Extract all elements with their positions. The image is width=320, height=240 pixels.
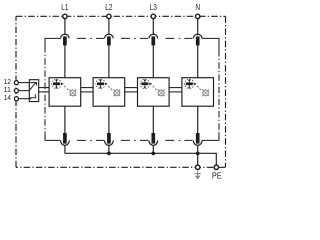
wire L2 terminal to upper contact xyxy=(108,19,110,36)
varistor/disconnector icon (gray crossed square) module L1 xyxy=(69,89,77,97)
terminal circle L2 xyxy=(107,14,111,18)
junction dot on PE bus at x=108.9 xyxy=(107,152,111,156)
protection module box (L1 path) xyxy=(49,78,81,107)
varistor/disconnector icon (gray crossed square) module L3 xyxy=(157,89,165,97)
wire module L2 to lower contact xyxy=(108,106,110,133)
wire N terminal to upper contact xyxy=(197,19,199,36)
svg-text:L3: L3 xyxy=(150,3,158,12)
upper plug-in contact L3 (socket arc + blade) xyxy=(149,34,158,77)
svg-text:L2: L2 xyxy=(105,3,113,12)
wire FM terminal 14 to contact box xyxy=(18,98,29,100)
wire L3 terminal to upper contact xyxy=(152,19,154,36)
spark gap icon (dashed enclosure, electrode bar, pressure arrows) module L3 xyxy=(140,79,156,90)
wire module L3 to lower contact xyxy=(152,106,154,133)
junction dot on PE bus at x=197.7 xyxy=(196,152,200,156)
earth terminal circle xyxy=(196,165,200,169)
lower plug-in contact L1 (blade + socket arc) xyxy=(61,133,70,153)
svg-text:N: N xyxy=(195,3,200,12)
upper plug-in contact N (socket arc + blade) xyxy=(193,34,202,77)
device outline (dash-dot border) xyxy=(16,16,226,167)
wire FM terminal 11 to contact box xyxy=(18,90,29,92)
svg-text:14: 14 xyxy=(4,93,11,102)
terminal circle N xyxy=(196,14,200,18)
spark gap icon (dashed enclosure, electrode bar, pressure arrows) module N xyxy=(185,79,201,90)
wire junction to earth terminal xyxy=(197,153,199,164)
FM signalling bus (double lines through modules) xyxy=(39,88,182,92)
terminal circle L1 xyxy=(63,14,67,18)
svg-text:PE: PE xyxy=(212,170,222,180)
lower plug-in contact L2 (blade + socket arc) xyxy=(105,133,114,153)
protection module box (N path) xyxy=(182,78,214,107)
spark gap icon (dashed enclosure, electrode bar, pressure arrows) module L1 xyxy=(52,79,68,90)
protection module box (L3 path) xyxy=(138,78,170,107)
wire L1 terminal to upper contact xyxy=(64,19,66,36)
protection module box (L2 path) xyxy=(93,78,125,107)
lower plug-in contact N (blade + socket arc) xyxy=(193,133,202,153)
terminal circle L3 xyxy=(151,14,155,18)
FM changeover contact box xyxy=(29,80,38,102)
changeover switch (11 common, 12/14 contacts) xyxy=(29,82,36,98)
wire module L1 to lower contact xyxy=(64,106,66,133)
lower plug-in contact L3 (blade + socket arc) xyxy=(149,133,158,153)
module separation line (dash-dot ring) xyxy=(45,38,219,140)
FM terminal circle 12 xyxy=(14,81,18,85)
svg-text:L1: L1 xyxy=(61,3,69,12)
PE equipotential bus xyxy=(65,153,216,164)
junction dot on PE bus at x=153.3 xyxy=(151,152,155,156)
varistor/disconnector icon (gray crossed square) module N xyxy=(202,89,210,97)
spark gap icon (dashed enclosure, electrode bar, pressure arrows) module L2 xyxy=(96,79,112,90)
earth conductor arrow (gray) xyxy=(195,171,201,180)
varistor/disconnector icon (gray crossed square) module L2 xyxy=(113,89,121,97)
FM terminal circle 14 xyxy=(14,97,18,101)
upper plug-in contact L1 (socket arc + blade) xyxy=(61,34,70,77)
FM terminal circle 11 xyxy=(14,89,18,93)
wire FM terminal 12 to contact box xyxy=(18,82,29,84)
PE terminal circle xyxy=(214,165,218,169)
upper plug-in contact L2 (socket arc + blade) xyxy=(105,34,114,77)
wire module N to lower contact xyxy=(197,106,199,133)
